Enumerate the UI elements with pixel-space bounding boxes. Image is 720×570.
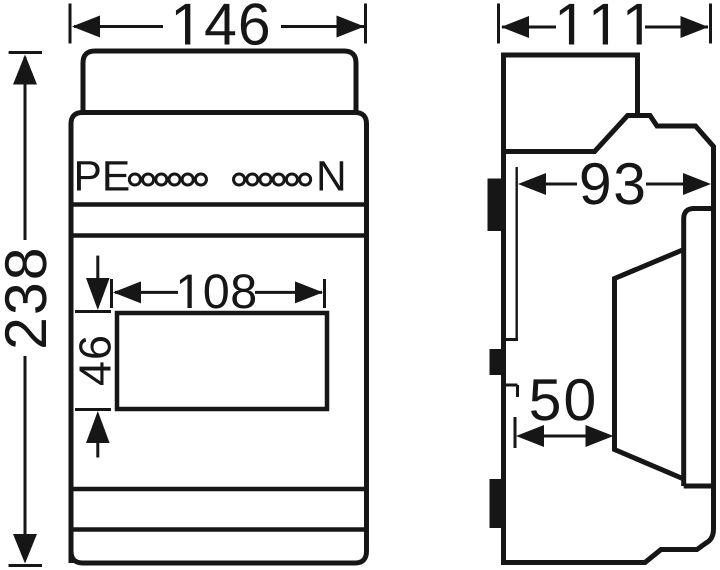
- dimension 93: [518, 163, 711, 205]
- mounting clip block bottom: [490, 479, 504, 528]
- label N: [320, 161, 344, 190]
- DIN rail step upper: [506, 338, 518, 341]
- side view sloped flap panel: [615, 250, 684, 480]
- side view door front line: [684, 209, 714, 487]
- window cutout rectangle: [117, 313, 327, 409]
- dimension 238: [5, 53, 47, 566]
- side view door bottom line: [684, 484, 714, 489]
- terminal row bottom line: [71, 202, 367, 207]
- band line below terminal row: [71, 233, 367, 238]
- dimension 108: [112, 274, 325, 308]
- DIN rail extension line: [516, 167, 518, 339]
- label PE: [77, 161, 128, 190]
- dimension 50: [515, 379, 614, 448]
- lower band line 1: [71, 487, 367, 492]
- DIN rail step lower: [506, 385, 518, 397]
- front view hood (top cover): [83, 51, 356, 114]
- mounting clip block middle: [490, 349, 507, 375]
- side view outer profile: [504, 55, 714, 563]
- front view main box: [71, 113, 367, 564]
- PE terminal circles group 1: [129, 174, 206, 185]
- mounting clip block top: [488, 179, 504, 232]
- N terminal circles group 2: [234, 174, 311, 185]
- lower band line 2: [71, 527, 367, 532]
- dimension 46: [75, 256, 111, 458]
- dimension 111: [499, 4, 711, 45]
- dimension 146: [70, 3, 366, 45]
